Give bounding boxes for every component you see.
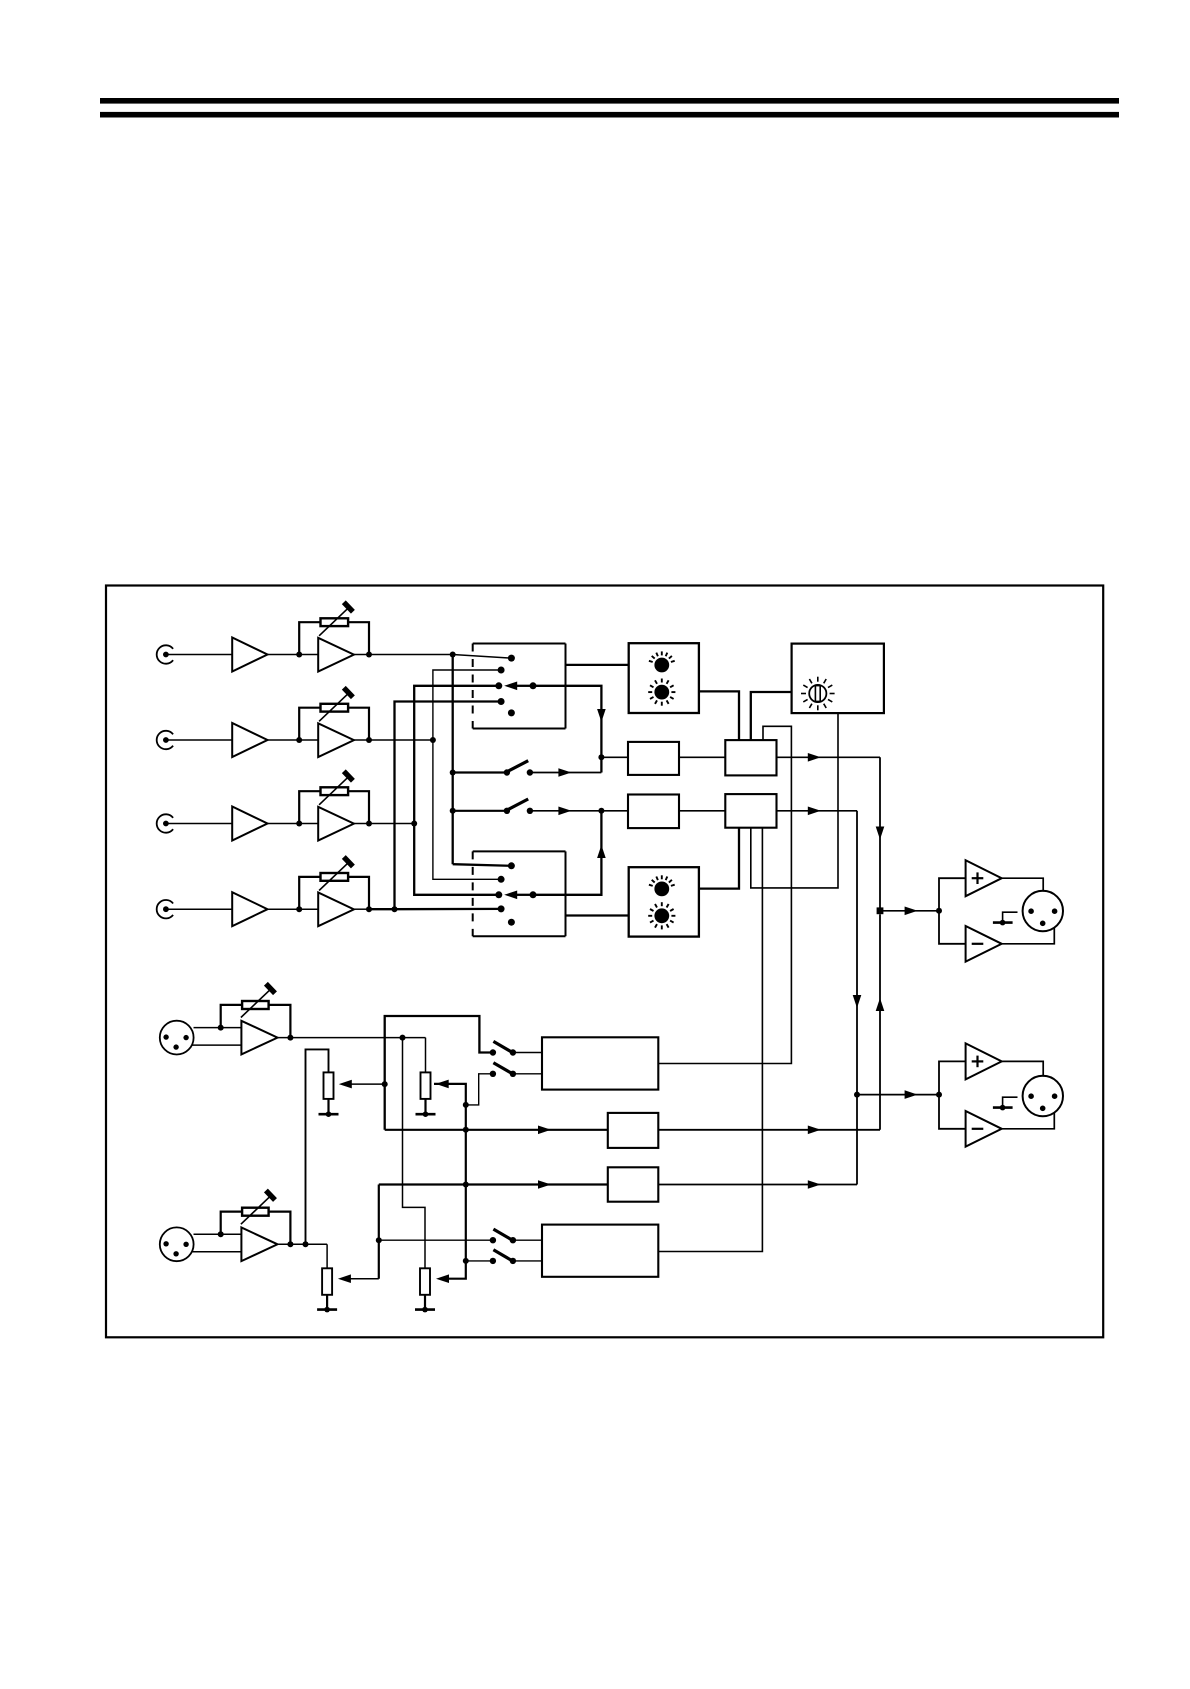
ground level pot mic2 — [424, 1295, 426, 1310]
mic row 2 wire — [379, 1183, 608, 1185]
wire A2 to master — [777, 756, 881, 758]
wire ch4 to selector B contact — [395, 908, 502, 911]
node ch3 amp input — [296, 821, 302, 827]
cue pot mic2 — [322, 1268, 332, 1295]
junction booth driver — [936, 1092, 942, 1098]
mic2 net — [378, 1185, 380, 1279]
S2 contact 2 — [498, 876, 505, 883]
ground cue pot mic2 — [326, 1295, 328, 1310]
XLR output booth — [1023, 1076, 1063, 1116]
XLR input mic2 — [160, 1227, 194, 1261]
wire buffer to gain amp ch2 — [268, 739, 319, 741]
block A2 — [725, 740, 776, 775]
feedback wire right ch2 — [348, 708, 369, 740]
RCA jack J1 — [157, 645, 173, 663]
gain amp ch3 — [318, 807, 354, 841]
mic1 net — [385, 1016, 493, 1130]
bus ch3 vertical — [414, 686, 499, 895]
XLR output master — [1023, 891, 1063, 931]
feedback wire left ch3 — [299, 791, 320, 823]
trim pot ch4 — [321, 873, 349, 881]
wire LED block 1 to A2 — [699, 691, 739, 740]
ground master XLR — [993, 921, 1013, 924]
wire SW-M2a to block — [513, 1239, 542, 1241]
S2 contact 1 — [508, 862, 515, 869]
block A1 — [628, 742, 679, 775]
mic row 2 block — [608, 1167, 659, 1201]
mic row 1 block — [608, 1113, 659, 1148]
input selector S1 box — [473, 643, 566, 645]
junction row A — [598, 754, 604, 760]
wire S1 to LED block 1 — [566, 664, 629, 666]
LED D3 — [654, 882, 669, 897]
wire buffer to gain amp ch1 — [268, 654, 319, 656]
junction master driver — [936, 908, 942, 914]
wire ch3 output to bus — [354, 823, 414, 825]
wire S1 wiper out — [533, 686, 601, 773]
block B2 — [725, 794, 776, 828]
junction ch1 bus row A tap — [450, 770, 456, 776]
feedback wire right ch4 — [348, 877, 369, 909]
trim pot ch2 — [321, 704, 349, 712]
junction mic wiper bus 1 — [463, 1102, 469, 1108]
S2 contact 4 — [498, 905, 505, 912]
ground cue pot mic1 — [327, 1099, 329, 1114]
junction ch2 bus — [430, 737, 436, 743]
wire LED block 2 to B2 — [699, 828, 739, 889]
junction ch3 bus — [411, 821, 417, 827]
arrow up master riser — [876, 998, 885, 1011]
wire SW-M1b to block — [513, 1073, 542, 1075]
wire mic row 1 to master — [658, 1129, 880, 1131]
wire J3 to buffer — [166, 823, 232, 825]
mic row 1 wire — [385, 1129, 608, 1131]
wire mic row 2 to booth — [658, 1184, 857, 1186]
booth driver + amp — [966, 1043, 1002, 1079]
arrow down booth — [853, 995, 862, 1008]
S2 contact 5 — [508, 919, 515, 926]
trim pot ch1 — [321, 618, 349, 626]
RCA jack J2 — [157, 731, 173, 749]
cue pot mic1 — [324, 1072, 334, 1099]
feedback wire right ch3 — [348, 791, 369, 823]
LED block 1 — [629, 643, 699, 713]
node ch4 output — [366, 906, 372, 912]
gain pot mic2 — [242, 1208, 269, 1216]
wire J4 to buffer — [166, 908, 232, 910]
feedback wire right ch1 — [348, 622, 369, 654]
wire mic2 block out to B2 — [658, 828, 762, 1252]
S1 contact 1 — [508, 655, 515, 662]
feedback wire left ch1 — [299, 622, 320, 654]
node ch2 amp input — [296, 737, 302, 743]
master driver split — [939, 878, 966, 944]
wire mic1 crossfeed drop — [403, 1038, 426, 1269]
LED D4 — [654, 908, 669, 923]
wire lamp block to B2 — [751, 713, 838, 888]
LED block 2 — [629, 867, 699, 936]
LED D1 — [654, 658, 669, 673]
bus ch1 vertical — [452, 655, 454, 865]
master driver + amp — [966, 860, 1002, 896]
wire S2 to LED block 2 — [566, 914, 629, 916]
booth driver - amp — [966, 1111, 1002, 1147]
wire - to XLR — [1002, 927, 1055, 944]
diagram outer border — [106, 586, 1103, 1338]
wire SW-M1b feed — [466, 1074, 493, 1105]
wire J1 to buffer — [166, 654, 232, 656]
wire mic2 to cue pot — [326, 1244, 328, 1268]
junction mic1 crossfeed — [400, 1035, 406, 1041]
gain pot mic1 — [242, 1001, 269, 1009]
wire master to driver — [883, 910, 939, 912]
wire booth drop — [856, 811, 858, 1185]
mic2 feedback left — [221, 1212, 242, 1235]
wire booth - to XLR — [1002, 1112, 1055, 1129]
level pot mic2 — [420, 1268, 430, 1295]
ground level pot mic1 — [424, 1099, 426, 1114]
wire mic2 switch feed — [379, 1239, 493, 1241]
arrow into level pot mic2 — [436, 1274, 449, 1283]
wire SW-M1a to block — [513, 1052, 542, 1054]
level pot mic1 — [421, 1072, 431, 1099]
wire booth + to XLR — [1002, 1061, 1043, 1076]
wire A1 to A2 — [679, 756, 725, 758]
node mic1 out — [287, 1035, 293, 1041]
booth driver split — [939, 1061, 966, 1128]
wire mic1 block out to A2 — [658, 726, 791, 1063]
S1 contact 2 — [498, 667, 505, 674]
wire S2 wiper out — [533, 811, 601, 895]
wire mic1 to level pot — [425, 1038, 427, 1073]
wire ch1 output to bus — [354, 654, 453, 656]
wire cue pot mic2 wiper — [347, 1278, 379, 1280]
S2 wiper arrow — [517, 894, 533, 896]
node ch2 output — [366, 737, 372, 743]
buffer amp ch3 — [232, 807, 267, 841]
bus ch2 vertical — [433, 670, 501, 879]
wire buffer to gain amp ch4 — [268, 908, 319, 910]
gain amp ch1 — [318, 638, 354, 672]
mic amp 1 — [241, 1021, 277, 1055]
wire ch4 output to bus — [354, 908, 369, 910]
double horizontal rule (top of page) — [100, 98, 1119, 104]
LED D2 — [654, 685, 669, 700]
node ch3 output — [366, 821, 372, 827]
wire into EQ block B1 — [601, 810, 628, 812]
trim pot ch3 — [321, 787, 349, 795]
bus ch4 vertical — [395, 702, 502, 910]
wire mic1 cold — [192, 1044, 241, 1046]
arrow down master — [876, 827, 885, 840]
junction mic1 net wiper tap — [382, 1081, 388, 1087]
arrow up to row B — [597, 845, 606, 858]
input selector S2 box — [473, 850, 566, 852]
gain amp ch4 — [318, 893, 354, 927]
mic1 feedback left — [221, 1005, 242, 1028]
arrow into level pot mic1 — [436, 1080, 449, 1089]
wire A2 to lamp block — [751, 692, 792, 740]
node ch4 amp input — [296, 906, 302, 912]
S1 wiper node — [530, 682, 537, 689]
arrow down to row A — [597, 709, 606, 722]
mic2 feedback right — [269, 1212, 291, 1245]
XLR input mic1 — [160, 1021, 194, 1055]
buffer amp ch1 — [232, 638, 267, 672]
wire buffer to gain amp ch3 — [268, 823, 319, 825]
junction mic2 net switch tap — [376, 1237, 382, 1243]
junction ch1 bus — [450, 652, 456, 658]
mic amp 2 — [241, 1228, 277, 1262]
wire cue pot mic1 top — [306, 1049, 329, 1244]
wire ch2 output to bus — [354, 739, 433, 741]
wire + to XLR — [1002, 878, 1043, 891]
S1 contact 3 — [495, 682, 502, 689]
S2 contact 3 — [495, 891, 502, 898]
node master sum — [877, 907, 884, 914]
junction mic2 feedback — [218, 1231, 224, 1237]
junction mic wiper bus row2 — [463, 1182, 469, 1188]
RCA jack J3 — [157, 814, 173, 832]
master driver - amp — [966, 926, 1002, 962]
wire ch1 bus to selector B contact — [453, 864, 512, 866]
wire mic1 hot — [194, 1027, 242, 1029]
wire cue pot mic1 wiper — [348, 1083, 385, 1085]
junction ch1 bus row B tap — [450, 808, 456, 814]
gain amp ch2 — [318, 723, 354, 757]
wire ch1 tap to switch SW-B — [453, 810, 507, 812]
mic1 talk block — [542, 1037, 658, 1089]
block B1 — [628, 795, 679, 829]
buffer amp ch2 — [232, 723, 267, 757]
wire mic1 out — [278, 1037, 426, 1039]
S1 wiper arrow — [517, 685, 533, 687]
wire ch1 tap to switch SW-A — [453, 771, 507, 773]
switch SW-B — [504, 808, 510, 814]
wire SW-B to row B junction — [530, 810, 602, 812]
junction mic wiper bus row1 — [463, 1127, 469, 1133]
mic1 feedback right — [269, 1005, 291, 1038]
S2 wiper node — [530, 891, 537, 898]
junction mic2 crossfeed — [303, 1241, 309, 1247]
node ch1 output — [366, 652, 372, 658]
wire B2 to booth — [777, 810, 858, 812]
wire mic2 out — [278, 1243, 328, 1245]
junction mic1 feedback — [218, 1025, 224, 1031]
ground booth XLR — [993, 1106, 1013, 1109]
switch SW-M1b — [490, 1071, 496, 1077]
wire B1 to B2 — [679, 810, 725, 812]
S1 contact 5 — [508, 709, 515, 716]
junction ch4 bus — [392, 906, 398, 912]
mic wiper bus — [434, 1084, 466, 1279]
junction mic wiper bus 2 — [463, 1258, 469, 1264]
S1 contact 4 — [498, 698, 505, 705]
buffer amp ch4 — [232, 892, 267, 926]
switch SW-M1a — [490, 1049, 496, 1055]
junction row B — [598, 808, 604, 814]
wire master drop — [879, 757, 881, 907]
wire SW-A to row A junction — [530, 772, 602, 774]
wire into EQ block A1 — [601, 756, 628, 758]
wire SW-M2b to block — [513, 1260, 542, 1262]
node mic2 out — [287, 1241, 293, 1247]
feedback wire left ch4 — [299, 877, 320, 909]
node ch1 amp input — [296, 652, 302, 658]
wire ch1 to selector A contact — [453, 655, 512, 659]
feedback wire left ch2 — [299, 708, 320, 740]
wire SW-M2b feed — [466, 1260, 493, 1262]
wire booth to driver — [857, 1094, 939, 1096]
mic2 talk block — [542, 1225, 658, 1277]
switch SW-M2a — [490, 1237, 496, 1243]
RCA jack J4 — [157, 900, 173, 918]
wire J2 to buffer — [166, 739, 232, 741]
wire mic2 cold — [192, 1251, 241, 1253]
junction booth sum — [854, 1092, 860, 1098]
lamp block — [792, 644, 884, 714]
switch SW-M2b — [490, 1258, 496, 1264]
lamp LA1 — [809, 685, 826, 702]
switch SW-A — [504, 769, 510, 775]
wire master return riser — [879, 914, 881, 1130]
wire mic2 hot — [194, 1233, 242, 1235]
